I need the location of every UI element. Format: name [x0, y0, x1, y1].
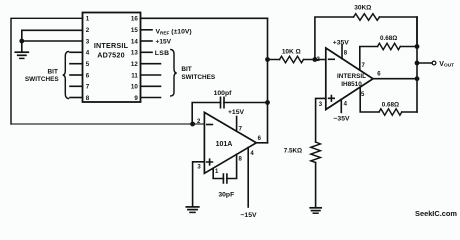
bit switches label left — [25, 68, 59, 83]
U1 pin 14 stub — [141, 40, 153, 42]
svg-text:−15V: −15V — [240, 212, 257, 219]
resistor R1 10K wires — [268, 59, 326, 61]
svg-text:+15V: +15V — [228, 109, 245, 116]
svg-text:1: 1 — [86, 16, 90, 23]
svg-text:5: 5 — [86, 61, 90, 68]
U2 pin 6 output wire — [256, 142, 267, 144]
U3 non-inverting plus sign — [329, 96, 335, 102]
resistor R3 0.68 zigzag — [378, 43, 401, 49]
U1 pin 4 stub — [70, 51, 83, 53]
Vout terminal circle — [432, 61, 436, 65]
wire U1 pin16 to middle bus — [141, 17, 268, 19]
svg-text:IH8510: IH8510 — [341, 81, 362, 88]
svg-text:+35V: +35V — [333, 39, 350, 46]
U3 pin 6 output wire to right bus — [373, 78, 417, 80]
junction dot bus/pin6 — [415, 76, 420, 81]
svg-text:LSB: LSB — [155, 50, 170, 57]
U3 pin 4 stub — [340, 99, 342, 112]
U2 pin 1 stub — [213, 169, 223, 178]
U1 pin 8 stub — [70, 97, 83, 99]
junction dot bus/100pf — [265, 100, 270, 105]
svg-text:15: 15 — [131, 27, 138, 34]
U2 pin 8 stub — [227, 154, 237, 178]
svg-text:10K Ω: 10K Ω — [282, 49, 301, 56]
wire U1 pin3 to ground junction — [22, 40, 83, 42]
U3 pin 5 stub to R4 — [360, 87, 379, 112]
svg-text:6: 6 — [86, 72, 90, 79]
svg-text:2: 2 — [86, 27, 90, 34]
middle bus node (101A output net) — [267, 18, 269, 143]
svg-text:AD7520: AD7520 — [97, 50, 125, 59]
svg-text:INTERSIL: INTERSIL — [94, 41, 129, 50]
wire U1 pin2 to ground — [22, 30, 83, 52]
U2 pin 4 stub — [247, 148, 249, 208]
U2 pin 7 stub — [236, 117, 238, 132]
svg-text:+15V: +15V — [156, 38, 172, 45]
resistor R5 7.5K zigzag — [311, 142, 321, 162]
U2 inverting input minus sign — [207, 124, 213, 126]
svg-text:8: 8 — [86, 95, 90, 102]
svg-text:30KΩ: 30KΩ — [354, 4, 371, 11]
junction dot bus/Vout — [415, 61, 420, 66]
svg-text:9: 9 — [134, 95, 138, 102]
svg-text:30pF: 30pF — [218, 191, 234, 198]
resistor R5 bottom wire — [315, 163, 317, 208]
U3 pin 7 stub to R3 — [360, 47, 378, 71]
svg-text:7: 7 — [86, 84, 90, 91]
label VREF (±10V) pin15 — [156, 29, 192, 36]
ground G1 — [15, 52, 28, 58]
capacitor C1 100pf wires — [192, 103, 267, 125]
junction dot bus/10K — [265, 57, 270, 62]
svg-text:7.5KΩ: 7.5KΩ — [284, 147, 302, 154]
U1 pin 5 stub — [70, 63, 83, 65]
junction dot U2 input node — [190, 122, 195, 127]
resistor R3 right wire — [400, 46, 417, 48]
IC U1 AD7520 body — [83, 13, 141, 103]
resistor R2 30K feedback loop wires — [315, 17, 417, 60]
svg-text:16: 16 — [131, 16, 138, 23]
svg-text:100pf: 100pf — [214, 90, 232, 97]
capacitor C2 30pF plates — [223, 174, 227, 183]
U1 pin 15 stub — [141, 29, 153, 31]
U3 inverting input minus sign — [329, 58, 335, 60]
svg-text:VREF (±10V): VREF (±10V) — [156, 29, 192, 36]
resistor R1 10K zigzag — [280, 56, 304, 62]
svg-text:BIT: BIT — [181, 66, 191, 73]
junction dot bus/R3 — [415, 44, 420, 49]
svg-text:10: 10 — [131, 84, 138, 91]
svg-text:SWITCHES: SWITCHES — [181, 74, 215, 81]
resistor R4 0.68 zigzag — [379, 109, 402, 115]
brace left pins 4-8 — [63, 52, 69, 99]
svg-text:SWITCHES: SWITCHES — [25, 76, 59, 83]
svg-text:12: 12 — [131, 61, 138, 68]
svg-text:11: 11 — [131, 72, 138, 79]
wire bottom run to U2 pin2 — [11, 123, 205, 125]
svg-text:0.68Ω: 0.68Ω — [380, 35, 397, 42]
svg-text:SeekIC.com: SeekIC.com — [415, 209, 457, 218]
svg-text:101A: 101A — [216, 141, 233, 148]
ground G3 — [310, 208, 321, 213]
U2 non-inverting plus sign — [207, 159, 213, 165]
U3 pin 8 stub — [341, 45, 343, 59]
svg-text:3: 3 — [86, 38, 90, 45]
right output bus — [416, 17, 418, 112]
capacitor C1 100pf plates — [221, 97, 225, 107]
svg-text:INTERSIL: INTERSIL — [337, 73, 366, 80]
resistor R4 right wire — [402, 111, 417, 113]
U1 pin 6 stub — [70, 74, 83, 76]
brace right pins 12-9 — [171, 50, 177, 97]
resistor R5 7.5K wire from U3 pin3 — [316, 98, 326, 142]
svg-text:0.68Ω: 0.68Ω — [382, 101, 399, 108]
U1 pin 13 stub — [141, 51, 153, 53]
resistor R2 30K zigzag — [354, 14, 380, 21]
U1 left pin numbers 1-8 — [86, 16, 90, 102]
U2 pin 3 wire to ground — [193, 162, 205, 207]
op-amp U2 101A triangle — [204, 112, 256, 173]
U1 right pin numbers 16-9 — [131, 16, 138, 102]
svg-text:14: 14 — [131, 38, 138, 45]
bit switches label right — [181, 66, 215, 81]
U1 pin 12 stub — [141, 63, 161, 65]
junction dot R1/30K feedback — [313, 57, 318, 62]
svg-text:13: 13 — [131, 50, 138, 57]
svg-text:−35V: −35V — [333, 116, 350, 123]
svg-text:BIT: BIT — [48, 68, 58, 75]
U1 pin 7 stub — [70, 85, 83, 87]
U1 pin 10 stub — [141, 85, 161, 87]
U1 pin 9 stub — [141, 97, 161, 99]
U1 pin 11 stub — [141, 74, 161, 76]
wire U1 pin1 long loop to U2 pin2 — [11, 18, 83, 124]
svg-text:4: 4 — [86, 50, 90, 57]
op-amp U3 IH8510 triangle — [326, 48, 373, 110]
label INTERSIL IH8510 — [337, 73, 366, 88]
ground G2 — [186, 207, 199, 213]
junction dot pin3/ground — [19, 39, 24, 44]
wire to Vout terminal — [417, 62, 432, 64]
